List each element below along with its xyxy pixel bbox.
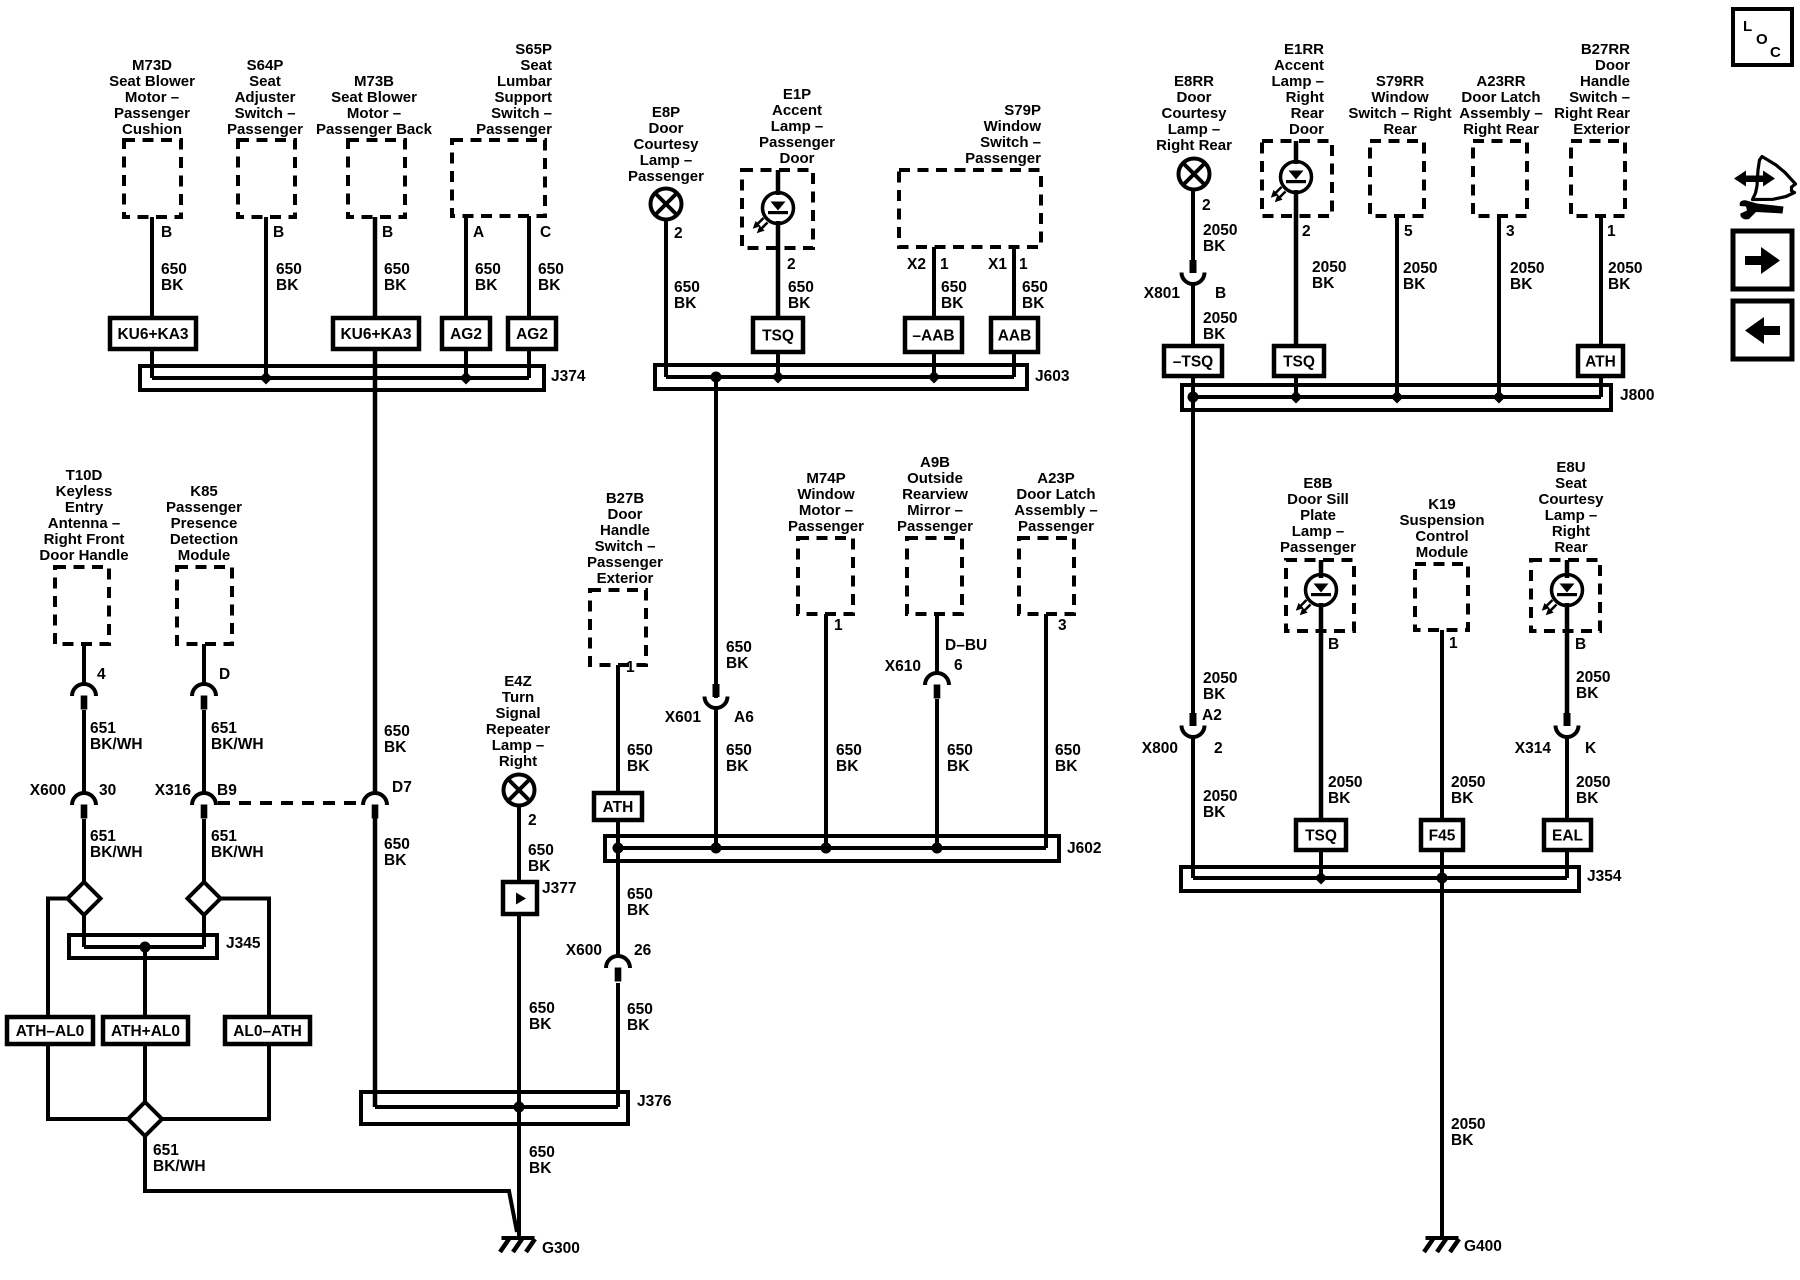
svg-text:A6: A6 xyxy=(734,709,754,726)
component T10D box xyxy=(55,567,109,644)
svg-text:Switch – Right: Switch – Right xyxy=(1348,105,1451,122)
svg-text:6: 6 xyxy=(954,657,963,674)
wire X314 to EAL xyxy=(1565,737,1569,820)
lamp E4Z xyxy=(504,775,535,806)
svg-text:K: K xyxy=(1585,740,1597,757)
svg-text:F45: F45 xyxy=(1429,828,1456,845)
junction -TSQ at J800 xyxy=(1188,392,1199,403)
svg-text:Rear: Rear xyxy=(1291,105,1325,122)
pin X1 of S79P xyxy=(988,256,1007,273)
svg-text:1: 1 xyxy=(1449,635,1458,652)
svg-text:Door Sill: Door Sill xyxy=(1287,491,1349,508)
connector code KU6+KA3 (M73D) xyxy=(110,318,196,349)
pin B of E8U xyxy=(1575,636,1586,653)
junction M74P at J602 xyxy=(821,843,832,854)
component S65P box xyxy=(452,140,545,216)
component M73D box xyxy=(124,140,181,217)
wire label 2050 BK xyxy=(1203,788,1237,821)
wire J345 to ATH+AL0 xyxy=(143,947,147,1017)
svg-text:650: 650 xyxy=(384,261,410,278)
connector code AG2 (pin C) xyxy=(508,318,556,349)
component T10D label xyxy=(39,467,128,564)
wire label 650 BK xyxy=(528,842,554,875)
wire label 650 BK xyxy=(538,261,564,294)
LED E1RR xyxy=(1271,162,1312,203)
wire label 650 BK xyxy=(276,261,302,294)
svg-text:Switch –: Switch – xyxy=(235,105,296,122)
wire T10D to pin 4 connector xyxy=(82,644,86,684)
svg-text:Antenna –: Antenna – xyxy=(48,515,121,532)
svg-text:J374: J374 xyxy=(551,368,586,385)
svg-text:X1: X1 xyxy=(988,256,1007,273)
svg-text:BK: BK xyxy=(1328,790,1351,807)
wire S79RR to J800 xyxy=(1395,216,1399,397)
svg-text:Handle: Handle xyxy=(1580,73,1630,90)
wire splice to ATH-AL0 xyxy=(48,899,68,1018)
connector code -TSQ xyxy=(1164,346,1222,376)
junction A9B at J602 xyxy=(932,843,943,854)
component E1P label xyxy=(759,86,835,167)
svg-text:2: 2 xyxy=(1214,740,1223,757)
junction E1RR at J800 xyxy=(1290,391,1303,404)
junction K19 at J354 xyxy=(1437,873,1448,884)
wire E8B to TSQ xyxy=(1319,603,1324,820)
connector code KU6+KA3 (M73B) xyxy=(333,318,419,349)
icon door panel with arrows and wrench xyxy=(1734,157,1796,220)
svg-text:G400: G400 xyxy=(1464,1238,1502,1255)
splice diamond bottom xyxy=(128,1102,162,1136)
junction bar J374 xyxy=(140,366,586,390)
svg-text:BK: BK xyxy=(276,277,299,294)
svg-text:J602: J602 xyxy=(1067,840,1101,857)
svg-text:650: 650 xyxy=(529,1000,555,1017)
component S65P label xyxy=(476,41,552,138)
pin 1 of S79P X1 xyxy=(1019,256,1028,273)
wire KU6+KA3 to J374 xyxy=(150,349,154,378)
wire E8U to X314 xyxy=(1565,603,1570,713)
svg-text:2050: 2050 xyxy=(1203,670,1237,687)
svg-text:651: 651 xyxy=(90,828,116,845)
svg-text:X600: X600 xyxy=(30,782,66,799)
svg-text:26: 26 xyxy=(634,942,652,959)
wire label 650 BK xyxy=(529,1144,555,1177)
svg-text:Handle: Handle xyxy=(600,522,650,539)
svg-text:Passenger Back: Passenger Back xyxy=(316,121,433,138)
svg-text:650: 650 xyxy=(941,279,967,296)
svg-text:BK: BK xyxy=(384,277,407,294)
wire ATH-AL0 to bottom splice xyxy=(48,1044,128,1119)
wire label 650 BK xyxy=(384,723,410,756)
svg-text:BK: BK xyxy=(528,858,551,875)
wire AAB to J603 xyxy=(1012,352,1016,377)
svg-text:Module: Module xyxy=(1416,544,1469,561)
svg-text:Passenger: Passenger xyxy=(788,518,864,535)
svg-text:Door: Door xyxy=(1177,89,1212,106)
connector code TSQ (E1RR) xyxy=(1274,346,1324,376)
svg-text:Mirror –: Mirror – xyxy=(907,502,963,519)
svg-text:X600: X600 xyxy=(566,942,602,959)
svg-text:650: 650 xyxy=(788,279,814,296)
svg-text:Keyless: Keyless xyxy=(56,483,113,500)
svg-text:Window: Window xyxy=(984,118,1042,135)
svg-text:O: O xyxy=(1756,31,1768,48)
svg-text:X800: X800 xyxy=(1142,740,1178,757)
svg-text:M73D: M73D xyxy=(132,57,172,74)
svg-text:E4Z: E4Z xyxy=(504,673,532,690)
wire B27RR to ATH xyxy=(1599,216,1603,346)
svg-text:E8P: E8P xyxy=(652,104,680,121)
svg-text:E8U: E8U xyxy=(1556,459,1585,476)
junction box J377 xyxy=(503,880,576,914)
svg-text:S79RR: S79RR xyxy=(1376,73,1425,90)
splice diamond left xyxy=(68,882,101,915)
wire label 2050 BK xyxy=(1608,260,1642,293)
svg-text:650: 650 xyxy=(726,639,752,656)
component S64P label xyxy=(227,57,303,138)
svg-text:Switch –: Switch – xyxy=(595,538,656,555)
svg-text:B27RR: B27RR xyxy=(1581,41,1630,58)
svg-text:Detection: Detection xyxy=(170,531,238,548)
component E1RR label xyxy=(1271,41,1324,138)
svg-text:651: 651 xyxy=(153,1142,179,1159)
svg-text:2050: 2050 xyxy=(1451,1116,1485,1133)
wire label 2050 BK xyxy=(1576,669,1610,702)
wire label 650 BK xyxy=(726,742,752,775)
inline connector pin 4 xyxy=(72,666,106,710)
wire E1P top stub xyxy=(776,170,781,195)
wire J603 to X601 xyxy=(714,377,718,698)
icon LOC box xyxy=(1733,9,1792,65)
wire label 2050 BK xyxy=(1203,310,1237,343)
svg-text:EAL: EAL xyxy=(1552,828,1583,845)
junction bar J602 xyxy=(605,836,1101,861)
pin 1 of M74P xyxy=(834,617,843,634)
junction -AAB at J603 xyxy=(928,371,941,384)
svg-text:650: 650 xyxy=(726,742,752,759)
svg-text:650: 650 xyxy=(538,261,564,278)
svg-text:BK: BK xyxy=(384,852,407,869)
svg-text:2050: 2050 xyxy=(1312,259,1346,276)
svg-text:Door Handle: Door Handle xyxy=(39,547,128,564)
svg-text:Right Rear: Right Rear xyxy=(1156,137,1232,154)
pin 5 of S79RR xyxy=(1404,223,1413,240)
wire label 2050 BK xyxy=(1203,670,1237,703)
wire label 650 BK xyxy=(384,261,410,294)
svg-text:650: 650 xyxy=(627,742,653,759)
svg-text:2: 2 xyxy=(674,225,683,242)
svg-text:1: 1 xyxy=(834,617,843,634)
svg-text:2050: 2050 xyxy=(1451,774,1485,791)
inline connector pin D xyxy=(192,666,230,710)
svg-text:B9: B9 xyxy=(217,782,237,799)
svg-text:Switch –: Switch – xyxy=(980,134,1041,151)
ground G400 xyxy=(1424,1236,1502,1255)
svg-text:Seat: Seat xyxy=(1555,475,1587,492)
svg-text:X314: X314 xyxy=(1515,740,1552,757)
svg-text:J377: J377 xyxy=(542,880,576,897)
component E8B label xyxy=(1280,475,1356,556)
svg-text:650: 650 xyxy=(475,261,501,278)
wire -AAB to J603 xyxy=(932,352,936,377)
svg-text:B: B xyxy=(1575,636,1586,653)
component A23RR label xyxy=(1459,73,1542,138)
wire label 2050 BK xyxy=(1203,222,1237,255)
svg-text:X801: X801 xyxy=(1144,285,1181,302)
svg-text:Exterior: Exterior xyxy=(597,570,654,587)
wire E1P to TSQ xyxy=(776,221,781,318)
svg-text:Window: Window xyxy=(797,486,855,503)
svg-text:Door: Door xyxy=(780,150,815,167)
svg-text:T10D: T10D xyxy=(66,467,103,484)
svg-text:30: 30 xyxy=(99,782,116,799)
svg-text:1: 1 xyxy=(940,256,949,273)
svg-text:Rearview: Rearview xyxy=(902,486,968,503)
wire E8P to J603 xyxy=(664,220,668,377)
wire AG2-C to J374 xyxy=(527,349,531,378)
svg-text:BK: BK xyxy=(1055,758,1078,775)
svg-text:–TSQ: –TSQ xyxy=(1173,354,1213,371)
wire ATH to J800 xyxy=(1599,376,1603,397)
svg-text:2050: 2050 xyxy=(1510,260,1544,277)
wire label 2050 BK xyxy=(1451,1116,1485,1149)
component E1RR box xyxy=(1262,141,1332,216)
connector code -AAB xyxy=(905,318,962,352)
connector code ATH+AL0 xyxy=(103,1017,188,1044)
svg-text:D–BU: D–BU xyxy=(945,637,987,654)
wire label 650 BK xyxy=(674,279,700,312)
inline connector X600 pin 26 xyxy=(566,942,652,982)
svg-text:E8RR: E8RR xyxy=(1174,73,1214,90)
component E8U box xyxy=(1531,560,1600,631)
svg-text:5: 5 xyxy=(1404,223,1413,240)
wire M74P to J602 xyxy=(824,614,828,848)
svg-text:S79P: S79P xyxy=(1004,102,1041,119)
svg-text:M73B: M73B xyxy=(354,73,394,90)
component K19 box xyxy=(1415,564,1468,630)
svg-text:650: 650 xyxy=(674,279,700,296)
svg-text:A2: A2 xyxy=(1202,707,1222,724)
pin 1 of B27B xyxy=(626,659,635,676)
svg-text:Exterior: Exterior xyxy=(1573,121,1630,138)
pin B of M73D xyxy=(161,224,172,241)
svg-text:BK: BK xyxy=(1203,326,1226,343)
wire E8B top stub xyxy=(1319,560,1324,578)
svg-text:AL0–ATH: AL0–ATH xyxy=(233,1023,302,1040)
component M74P box xyxy=(798,538,853,614)
svg-text:Signal: Signal xyxy=(495,705,540,722)
connector code TSQ (E8B) xyxy=(1296,820,1346,850)
svg-text:Right Rear: Right Rear xyxy=(1554,105,1630,122)
svg-text:Right Front: Right Front xyxy=(44,531,125,548)
wire label D-BU xyxy=(945,637,987,654)
svg-text:650: 650 xyxy=(529,1144,555,1161)
svg-text:Lamp –: Lamp – xyxy=(1271,73,1324,90)
svg-text:Module: Module xyxy=(178,547,231,564)
component M73D label xyxy=(109,57,195,138)
wire label 651 BK/WH xyxy=(211,720,264,753)
component S64P box xyxy=(238,140,295,217)
svg-text:Suspension: Suspension xyxy=(1399,512,1484,529)
svg-text:BK: BK xyxy=(627,758,650,775)
wire -TSQ through J800 down to X800 xyxy=(1191,376,1195,713)
wire X600 to splice xyxy=(82,819,86,884)
svg-text:BK: BK xyxy=(726,655,749,672)
wire label 651 BK/WH xyxy=(153,1142,206,1175)
svg-text:Switch –: Switch – xyxy=(1569,89,1630,106)
wire S65P pin C to AG2 xyxy=(527,216,531,318)
svg-text:J376: J376 xyxy=(637,1093,672,1110)
svg-text:BK: BK xyxy=(1451,1132,1474,1149)
svg-text:K85: K85 xyxy=(190,483,218,500)
wire X601 to J602 xyxy=(714,708,718,848)
wire TSQ to J354 xyxy=(1319,850,1323,878)
wire label 650 BK xyxy=(627,1001,653,1034)
svg-text:Outside: Outside xyxy=(907,470,963,487)
svg-text:X601: X601 xyxy=(665,709,702,726)
svg-text:Adjuster: Adjuster xyxy=(235,89,296,106)
wire M73B pin B to KU6+KA3 xyxy=(373,217,378,318)
svg-text:Passenger: Passenger xyxy=(1018,518,1094,535)
svg-text:E8B: E8B xyxy=(1303,475,1332,492)
lamp E8P xyxy=(651,189,682,220)
svg-text:2050: 2050 xyxy=(1576,774,1610,791)
inline connector X314 pin K xyxy=(1515,713,1597,757)
junction dot J345 xyxy=(140,942,151,953)
svg-text:Window: Window xyxy=(1371,89,1429,106)
svg-text:2: 2 xyxy=(1302,223,1311,240)
svg-text:J603: J603 xyxy=(1035,368,1070,385)
svg-text:BK/WH: BK/WH xyxy=(153,1158,206,1175)
svg-text:Plate: Plate xyxy=(1300,507,1336,524)
svg-text:3: 3 xyxy=(1058,617,1067,634)
junction dot at J376 xyxy=(514,1102,525,1113)
component S79P label xyxy=(965,102,1041,167)
svg-text:TSQ: TSQ xyxy=(1283,354,1315,371)
component E8B box xyxy=(1286,560,1354,631)
wire label 651 BK/WH xyxy=(90,720,143,753)
inline connector X316 pin B9 xyxy=(155,782,237,819)
junction bar J345 xyxy=(69,935,261,958)
wire label 651 BK/WH xyxy=(90,828,143,861)
svg-text:X2: X2 xyxy=(907,256,926,273)
svg-text:2: 2 xyxy=(528,812,537,829)
wire A9B to X610 xyxy=(935,614,939,673)
svg-text:AAB: AAB xyxy=(998,328,1032,345)
wire label 650 BK xyxy=(384,836,410,869)
pin B of M73B xyxy=(382,224,393,241)
svg-text:Cushion: Cushion xyxy=(122,121,182,138)
svg-text:A: A xyxy=(473,224,484,241)
pin X2 of S79P xyxy=(907,256,926,273)
wire label 2050 BK xyxy=(1576,774,1610,807)
svg-text:J800: J800 xyxy=(1620,387,1654,404)
pin B of E8B xyxy=(1328,636,1339,653)
wire label 650 BK xyxy=(1055,742,1081,775)
svg-text:650: 650 xyxy=(1055,742,1081,759)
svg-text:Motor –: Motor – xyxy=(125,89,179,106)
svg-text:2: 2 xyxy=(787,256,796,273)
component S79P box xyxy=(899,170,1041,247)
svg-text:650: 650 xyxy=(384,836,410,853)
pin B of S64P xyxy=(273,224,284,241)
connector code TSQ (E1P) xyxy=(753,318,803,352)
wire M73D pin B to KU6+KA3 xyxy=(150,217,154,318)
wire D7 to J376 xyxy=(373,818,378,1107)
svg-text:1: 1 xyxy=(626,659,635,676)
svg-text:BK: BK xyxy=(627,902,650,919)
svg-text:Courtesy: Courtesy xyxy=(1538,491,1604,508)
pin 1 of S79P X2 xyxy=(940,256,949,273)
svg-text:Lamp –: Lamp – xyxy=(1292,523,1345,540)
svg-text:S64P: S64P xyxy=(247,57,284,74)
junction drop at J603 xyxy=(711,372,722,383)
svg-text:650: 650 xyxy=(384,723,410,740)
component A9B label xyxy=(897,454,973,535)
connector code AL0-ATH xyxy=(225,1017,310,1044)
junction S64P at J374 xyxy=(260,372,273,385)
wire label 651 BK/WH xyxy=(211,828,264,861)
svg-text:G300: G300 xyxy=(542,1240,580,1257)
dashed net X316 to D7 xyxy=(218,801,360,805)
component S79RR label xyxy=(1348,73,1451,138)
svg-text:TSQ: TSQ xyxy=(1305,828,1337,845)
svg-text:AG2: AG2 xyxy=(516,326,548,343)
connector code AG2 (pin A) xyxy=(442,318,490,349)
svg-text:Lamp –: Lamp – xyxy=(492,737,545,754)
svg-text:Repeater: Repeater xyxy=(486,721,550,738)
pin 2 of E1RR xyxy=(1302,223,1311,240)
svg-text:BK: BK xyxy=(1576,685,1599,702)
svg-text:BK: BK xyxy=(1608,276,1631,293)
wire X801 to -TSQ xyxy=(1191,284,1195,346)
wire label 650 BK xyxy=(161,261,187,294)
wire E8U top stub xyxy=(1565,560,1570,578)
svg-text:Switch –: Switch – xyxy=(491,105,552,122)
svg-text:Motor –: Motor – xyxy=(347,105,401,122)
svg-text:Door: Door xyxy=(649,120,684,137)
wire label 650 BK xyxy=(836,742,862,775)
icon arrow right box xyxy=(1733,231,1792,289)
wire J377 through J376 to G300 xyxy=(517,914,521,1236)
svg-text:650: 650 xyxy=(947,742,973,759)
svg-text:X316: X316 xyxy=(155,782,192,799)
svg-text:BK/WH: BK/WH xyxy=(211,844,264,861)
svg-text:M74P: M74P xyxy=(806,470,845,487)
component K85 box xyxy=(177,567,232,644)
svg-text:BK: BK xyxy=(836,758,859,775)
svg-text:Passenger: Passenger xyxy=(759,134,835,151)
wire splice to J345 xyxy=(202,915,206,947)
junction S79RR at J800 xyxy=(1391,391,1404,404)
svg-text:Right Rear: Right Rear xyxy=(1463,121,1539,138)
wire label 2050 BK xyxy=(1510,260,1544,293)
svg-text:ATH: ATH xyxy=(603,799,634,816)
svg-text:BK: BK xyxy=(726,758,749,775)
svg-text:Passenger: Passenger xyxy=(166,499,242,516)
svg-text:Door Latch: Door Latch xyxy=(1461,89,1540,106)
pin 2 of E1P xyxy=(787,256,796,273)
svg-text:Entry: Entry xyxy=(65,499,104,516)
svg-text:BK: BK xyxy=(1203,238,1226,255)
svg-text:BK: BK xyxy=(529,1016,552,1033)
wire E1RR to TSQ xyxy=(1294,190,1299,346)
svg-text:Accent: Accent xyxy=(1274,57,1324,74)
svg-text:Assembly –: Assembly – xyxy=(1014,502,1097,519)
svg-text:BK/WH: BK/WH xyxy=(211,736,264,753)
svg-text:A23RR: A23RR xyxy=(1476,73,1525,90)
component A9B box xyxy=(907,538,962,614)
wire X600 to J376 xyxy=(616,983,620,1107)
